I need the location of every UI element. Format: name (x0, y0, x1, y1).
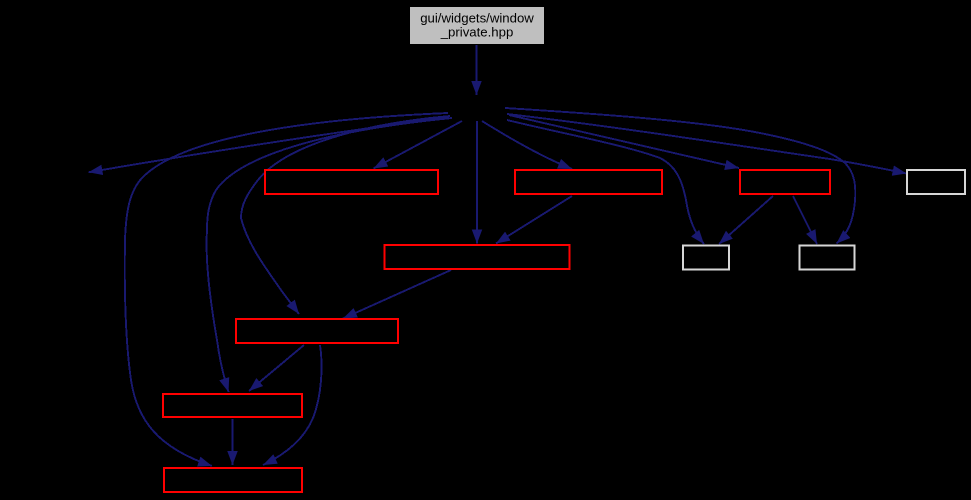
svg-text:gui/widgets/window: gui/widgets/window (420, 10, 534, 25)
svg-text:_private.hpp: _private.hpp (440, 24, 514, 39)
